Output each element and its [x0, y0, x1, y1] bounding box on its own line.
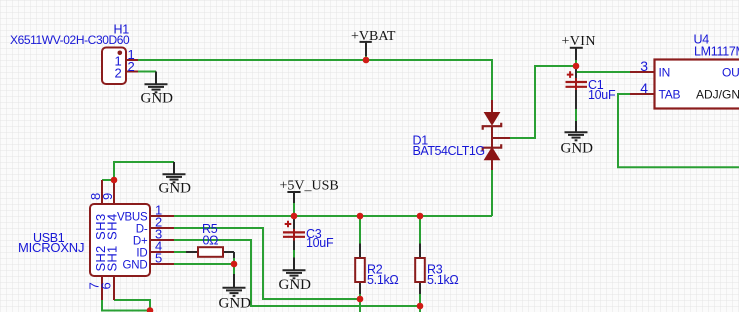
power symbol +VIN: [570, 48, 583, 60]
svg-text:10uF: 10uF: [588, 88, 616, 102]
junction R2 top: [357, 213, 364, 220]
wire USB pin8 to junction: [102, 179, 114, 181]
wire VBUS line (USB pin1 to D1): [174, 215, 492, 217]
wire +VIN stem green: [575, 60, 577, 66]
svg-text:9: 9: [100, 193, 115, 200]
svg-text:IN: IN: [659, 65, 671, 79]
svg-text:SH4: SH4: [105, 213, 120, 240]
svg-text:LM1117MP: LM1117MP: [694, 45, 739, 59]
svg-text:3: 3: [640, 58, 648, 74]
svg-text:GND: GND: [141, 91, 174, 107]
svg-text:BAT54CLT1G: BAT54CLT1G: [413, 144, 485, 158]
wire R5 right to pin5 junction: [233, 258, 235, 264]
connector USB1: [90, 180, 174, 300]
svg-text:ID: ID: [136, 247, 147, 259]
svg-text:5.1kΩ: 5.1kΩ: [367, 273, 398, 287]
wire C3 to GND mid segment: [293, 250, 295, 258]
wire ID pin to R5: [174, 251, 186, 253]
svg-text:4: 4: [640, 80, 648, 96]
svg-text:10uF: 10uF: [306, 236, 334, 250]
ground above USB (pins 8/9 net): [163, 162, 186, 182]
junction +VIN: [573, 63, 580, 70]
wire USB pin9 junction to top GND: [114, 162, 174, 180]
wire USB pin5 to junction: [174, 263, 234, 265]
svg-text:+VBAT: +VBAT: [351, 29, 396, 44]
svg-text:GND: GND: [123, 259, 148, 271]
svg-text:GND: GND: [561, 141, 594, 157]
junction R2 bottom: [357, 296, 364, 303]
junction +5V_USB / C3: [291, 213, 298, 220]
svg-text:ADJ/GND: ADJ/GND: [696, 87, 739, 101]
junction R3 top: [417, 213, 424, 220]
wire R2 bottom: [359, 294, 361, 299]
connector H1: [102, 48, 138, 85]
svg-text:SH1: SH1: [105, 246, 120, 272]
svg-text:MICROXNJ: MICROXNJ: [18, 240, 84, 255]
svg-text:0Ω: 0Ω: [203, 234, 219, 248]
wire below R3 junction: [419, 306, 421, 312]
svg-text:D+: D+: [133, 235, 148, 247]
wire +5V_USB stem green: [293, 203, 295, 216]
resistor R3: [415, 244, 425, 295]
wire +VIN junction to U4 IN pin: [576, 66, 630, 72]
wire C1 to GND mid segment: [575, 109, 577, 121]
wire U4 TAB down and right: [618, 94, 739, 167]
capacitor C1: [566, 66, 588, 109]
junction USB pins 6/7: [147, 307, 154, 312]
svg-text:GND: GND: [279, 277, 312, 293]
wire D+ to R3 bottom: [174, 240, 420, 306]
wire D- to R2 bottom: [174, 228, 360, 299]
svg-text:X6511WV-02H-C30D60: X6511WV-02H-C30D60: [10, 33, 130, 47]
power symbol +5V_USB: [287, 192, 300, 203]
wire H1 pin2 to GND: [138, 71, 156, 73]
capacitor C3: [283, 216, 305, 250]
svg-text:D-: D-: [136, 223, 148, 235]
wire R3 bottom: [419, 294, 421, 306]
junction USB pins 8/9: [111, 177, 118, 184]
junction +VBAT: [363, 57, 370, 64]
svg-text:2: 2: [128, 59, 135, 74]
svg-text:+5V_USB: +5V_USB: [280, 179, 339, 194]
svg-text:6: 6: [99, 282, 114, 289]
ground under C1: [565, 121, 588, 140]
wire D1 tap to +VIN to U4 IN: [510, 66, 576, 138]
wire USB pin7 bottom: [102, 300, 150, 311]
svg-text:GND: GND: [219, 296, 252, 312]
wire D1 bottom to VBUS line: [491, 170, 493, 216]
svg-text:5.1kΩ: 5.1kΩ: [427, 273, 458, 287]
svg-text:GND: GND: [159, 181, 192, 197]
power symbol +VBAT: [360, 42, 372, 56]
wire +VBAT stem green: [365, 56, 367, 60]
regulator U4 LM1117: [630, 60, 739, 109]
wire below R2 junction: [359, 299, 361, 312]
resistor R2: [355, 244, 365, 295]
svg-text:2: 2: [115, 66, 122, 81]
junction R5 / USB pin5: [231, 261, 238, 268]
svg-text:TAB: TAB: [659, 87, 681, 101]
svg-text:OUT: OUT: [722, 65, 739, 79]
wire pin1 H1 to D1 top (net +VBAT): [138, 60, 492, 100]
svg-text:VBUS: VBUS: [117, 211, 148, 223]
resistor R5: [186, 247, 234, 258]
svg-text:5: 5: [155, 251, 162, 266]
ground under H1 pin2: [145, 72, 168, 93]
wire USB pin6 bottom: [114, 300, 150, 311]
ground under C3: [283, 258, 306, 279]
diode D1 BAT54C dual schottky: [483, 100, 510, 170]
wire junction to GND under R5: [233, 264, 235, 274]
junction R3 bottom: [417, 303, 424, 310]
wire R3 top: [419, 216, 421, 244]
ground under R5 junction: [223, 274, 246, 296]
svg-text:+VIN: +VIN: [562, 34, 596, 49]
wire R2 top: [359, 216, 361, 244]
